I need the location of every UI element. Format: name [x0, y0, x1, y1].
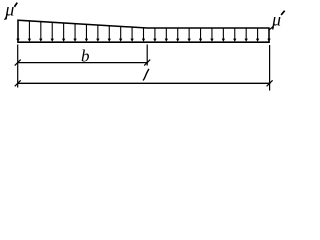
label l	[143, 69, 149, 81]
arrowhead 3	[39, 39, 42, 42]
label mu-right tail	[269, 26, 274, 30]
arrowhead 8	[96, 39, 99, 42]
label mu-left prime	[14, 3, 17, 7]
arrowhead 6	[73, 39, 76, 42]
b right extension line	[146, 45, 148, 66]
wire arrow stem 23	[268, 28, 270, 39]
wire arrow stem 7	[85, 24, 87, 39]
wire arrow stem 14	[165, 28, 167, 39]
tick l left	[15, 80, 21, 86]
wire arrow stem 20	[234, 28, 236, 39]
wire arrow stem 1	[17, 20, 19, 39]
arrowhead 14	[165, 39, 168, 42]
wire arrow stem 11	[131, 27, 133, 39]
arrowhead 10	[119, 39, 122, 42]
arrowhead 5	[62, 39, 65, 42]
arrowhead 23	[267, 39, 270, 42]
wire arrow stem 21	[245, 28, 247, 39]
tick b right	[144, 60, 150, 66]
arrowhead 18	[210, 39, 213, 42]
wire arrow stem 16	[188, 28, 190, 39]
arrowhead 21	[244, 39, 247, 42]
wire arrow stem 12	[143, 28, 145, 39]
dimension line l	[17, 82, 270, 84]
arrowhead 1	[16, 39, 19, 42]
dimension line b	[17, 62, 148, 64]
load envelope outline	[18, 20, 269, 42]
arrowhead 15	[176, 39, 179, 42]
wire arrow stem 2	[28, 21, 30, 39]
arrowhead 2	[28, 39, 31, 42]
arrowhead 17	[199, 39, 202, 42]
arrowhead 19	[222, 39, 225, 42]
arrowhead 4	[51, 39, 54, 42]
arrowhead 22	[256, 39, 259, 42]
wire arrow stem 13	[154, 28, 156, 39]
wire arrow stem 19	[222, 28, 224, 39]
wire arrow stem 9	[108, 26, 110, 39]
arrowhead 13	[153, 39, 156, 42]
arrowhead 20	[233, 39, 236, 42]
wire arrow stem 4	[51, 22, 53, 39]
wire arrow stem 22	[257, 28, 259, 39]
left extension line	[17, 45, 19, 88]
arrowhead 12	[142, 39, 145, 42]
wire arrow stem 3	[40, 22, 42, 39]
wire arrow stem 18	[211, 28, 213, 39]
arrowhead 7	[85, 39, 88, 42]
l right extension line	[269, 45, 271, 91]
wire arrow stem 5	[63, 23, 65, 39]
arrowhead 11	[130, 39, 133, 42]
tick b left	[15, 60, 21, 66]
tick l right	[267, 80, 273, 86]
wire arrow stem 17	[200, 28, 202, 39]
label mu-left tail	[5, 16, 7, 20]
wire arrow stem 8	[97, 25, 99, 39]
wire arrow stem 6	[74, 24, 76, 39]
beam baseline	[17, 41, 270, 43]
wire arrow stem 15	[177, 28, 179, 39]
arrowhead 16	[187, 39, 190, 42]
label mu-right prime	[281, 11, 285, 15]
arrowhead 9	[108, 39, 111, 42]
wire arrow stem 10	[120, 26, 122, 39]
svg-text:b: b	[81, 47, 90, 66]
svg-text:μ: μ	[4, 0, 14, 19]
